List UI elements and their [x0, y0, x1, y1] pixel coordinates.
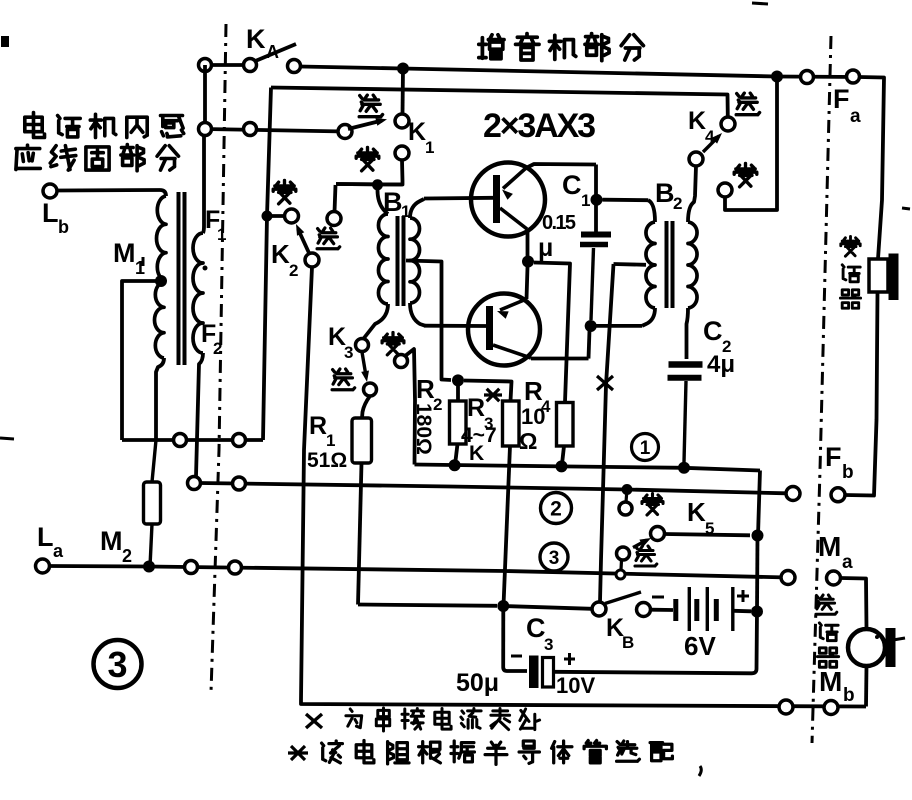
battery 6V cells	[673, 599, 678, 621]
capacitor C1	[581, 232, 611, 238]
transistor Q1	[471, 163, 545, 237]
switch K4 shou contact	[734, 164, 757, 187]
node junction K2 shou	[262, 211, 273, 222]
transmitter element	[848, 629, 885, 666]
mark C3 minus	[511, 655, 522, 658]
mark battery minus	[652, 596, 664, 599]
switch K2	[267, 214, 285, 218]
transistor Q1 emitter	[503, 168, 526, 189]
transistor Q2	[468, 294, 540, 366]
wire Q2 base	[424, 324, 486, 328]
svg-text:M: M	[818, 531, 841, 562]
transformer F core bars	[177, 192, 181, 365]
node junction B1 top	[372, 179, 383, 190]
svg-text:Ω: Ω	[519, 428, 537, 454]
wire C1 node to B2	[603, 198, 649, 202]
wire mu node to R4	[534, 263, 570, 403]
svg-text:R: R	[309, 412, 327, 440]
svg-text:K: K	[469, 442, 484, 465]
label song K2 and contact	[335, 185, 336, 212]
svg-text:51Ω: 51Ω	[307, 449, 347, 472]
switch K_B	[592, 602, 606, 616]
svg-text:1: 1	[425, 138, 434, 157]
svg-text:1: 1	[401, 202, 410, 221]
wire KB row	[358, 605, 497, 606]
svg-text:10: 10	[521, 404, 545, 429]
label shouhuaqi receiver text	[841, 237, 860, 257]
receiver element	[869, 259, 888, 292]
transformer B2 right winding	[688, 222, 697, 308]
svg-text:2: 2	[673, 194, 682, 213]
resistor R3	[503, 401, 520, 446]
transistor Q1 base bar	[493, 175, 500, 223]
wire M1 tap to left loop	[122, 281, 161, 440]
capacitor C3 plates	[529, 656, 539, 689]
note line 1 x mark	[306, 714, 322, 728]
wire B2 left bottom to collector node	[596, 324, 642, 328]
svg-text:K: K	[688, 107, 706, 135]
svg-text:M: M	[819, 666, 842, 697]
svg-text:L: L	[42, 198, 59, 228]
mark reference star R3	[487, 389, 500, 402]
switch K5	[651, 527, 665, 541]
svg-text:180Ω: 180Ω	[412, 403, 435, 455]
note line 2 text	[322, 741, 343, 763]
figure number 3 big	[94, 640, 142, 688]
svg-text:K: K	[408, 118, 426, 146]
transformer B1 core bars	[396, 216, 400, 306]
wire K5 to common node	[665, 534, 751, 535]
wire: K2 rail from second line	[263, 88, 271, 441]
capacitor C2	[669, 361, 703, 368]
mark M1 polarity tick	[142, 257, 145, 266]
wire: K2 pivot rail down to Mb row	[301, 267, 312, 700]
node junction battery plus	[751, 606, 763, 618]
transformer B1 left winding	[378, 190, 389, 214]
title zengyinji bufen	[479, 35, 504, 59]
svg-text:2: 2	[289, 261, 298, 280]
mark C3 plus	[564, 658, 575, 661]
svg-text:a: a	[53, 541, 64, 561]
svg-text:3: 3	[544, 635, 553, 654]
coil M1 lower	[155, 282, 165, 358]
terminal F_b circles	[786, 487, 800, 501]
wire R1 to KB row	[358, 463, 362, 605]
circled wire number 1	[632, 434, 659, 461]
label yingxianquan bufen text line2	[16, 145, 40, 169]
mark ammeter x	[597, 376, 613, 390]
label songhuaqi transmitter text	[816, 595, 837, 614]
svg-text:μ: μ	[538, 234, 553, 262]
transformer B1 right winding	[410, 218, 420, 303]
svg-text:a: a	[850, 106, 861, 127]
wire bias node corner to R2 R3	[442, 378, 452, 380]
switch K1	[338, 125, 352, 139]
svg-text:6V: 6V	[684, 631, 716, 661]
svg-text:K: K	[271, 239, 290, 269]
svg-text:C: C	[526, 613, 546, 643]
scan noise marks	[1, 36, 9, 47]
svg-text:50μ: 50μ	[456, 669, 499, 697]
transformer B2 core bars	[665, 221, 669, 308]
label song K1	[359, 95, 382, 117]
svg-text:2: 2	[550, 498, 562, 521]
node junction K5 shou	[622, 484, 633, 495]
node junction R4 bottom	[556, 460, 568, 472]
svg-text:M: M	[113, 238, 136, 268]
svg-text:B: B	[383, 187, 403, 217]
mark battery plus	[737, 595, 749, 598]
note line 2 reference mark	[291, 746, 305, 760]
wire Fb corner up to receiver	[845, 292, 878, 496]
node junction top right	[771, 71, 783, 83]
label shou K1	[356, 148, 379, 171]
wire row A corner down to battery plus rail	[758, 471, 760, 536]
svg-text:b: b	[843, 685, 855, 706]
svg-text:C: C	[562, 170, 582, 200]
circled wire number 3	[540, 543, 568, 571]
transistor Q2 emitter	[527, 267, 528, 299]
svg-text:3: 3	[549, 548, 560, 569]
svg-text:A: A	[266, 42, 279, 62]
node junction C2 bottom	[678, 462, 690, 474]
svg-text:1: 1	[581, 191, 590, 210]
wire B1 top node	[336, 182, 403, 186]
wire: right rail down to receiver	[859, 77, 884, 259]
capacitor C3 wires	[501, 606, 505, 667]
switch K1 row wire	[205, 129, 345, 132]
wire: second top line to K4	[271, 88, 728, 118]
svg-text:K: K	[687, 497, 706, 527]
coil F winding	[202, 136, 206, 227]
transistor Q2 collector	[493, 345, 531, 358]
svg-text:3: 3	[107, 644, 127, 685]
terminal L_b	[43, 184, 57, 198]
label shou K2	[273, 181, 296, 204]
svg-text:3: 3	[344, 343, 353, 362]
node junction at K_A output	[397, 63, 409, 75]
wire: left rail between rows	[203, 65, 207, 129]
node junction C1 top	[591, 194, 603, 206]
coil M1 upper	[160, 190, 166, 196]
svg-text:B: B	[655, 178, 675, 208]
svg-text:F: F	[833, 84, 850, 114]
switch K3 shou contact	[382, 333, 404, 355]
wire B2 center tap	[614, 262, 647, 267]
wire Ma row corner to transmitter	[841, 578, 867, 629]
svg-text:10V: 10V	[556, 673, 595, 698]
switch K5 shou contact	[626, 490, 627, 503]
label song K4	[736, 93, 759, 115]
switch K_A	[205, 63, 250, 67]
svg-text:b: b	[58, 217, 69, 237]
switch K1 shou contact and wire to B1	[395, 146, 409, 160]
label dianhuaji neigan text line1	[25, 113, 45, 138]
terminal F_a circles	[801, 71, 814, 84]
wire battery to plus node	[734, 609, 751, 613]
svg-text:1: 1	[640, 438, 651, 459]
resistor element M2 branch	[152, 440, 156, 482]
wire supply line with ammeter mark to KB	[600, 264, 614, 602]
svg-text:B: B	[622, 633, 634, 652]
terminal M_b circles	[779, 700, 793, 714]
node junction C1 bottom	[585, 320, 597, 332]
partition dash-dot line left	[211, 24, 226, 692]
wire KB to battery	[651, 608, 674, 612]
svg-text:1: 1	[326, 431, 335, 450]
node junction R2 bottom	[449, 459, 461, 471]
note comma	[699, 766, 701, 776]
terminal L_a and Ma row wire	[36, 559, 50, 573]
svg-text:L: L	[37, 522, 54, 552]
wire row1 crossing	[122, 438, 263, 442]
node junction KB row	[497, 600, 509, 612]
svg-text:F: F	[825, 442, 842, 472]
node junction R2 R3 top	[452, 374, 464, 386]
wire battery plus down to C3	[554, 612, 758, 674]
terminal M_a circles	[781, 571, 795, 585]
transformer B2 left winding	[648, 200, 655, 222]
transistor Q2 base bar	[486, 306, 493, 350]
note line 1 text	[346, 709, 362, 728]
svg-text:M: M	[100, 526, 123, 556]
svg-text:R: R	[467, 394, 485, 422]
circled wire number 2	[541, 493, 572, 524]
node junction M1 tap	[155, 275, 167, 287]
resistor R1	[352, 418, 372, 463]
wire: bottom Mb row	[301, 700, 866, 707]
wire Q1 base	[424, 196, 493, 200]
wire: top line from K_A to F_a	[300, 67, 859, 78]
svg-text:2: 2	[122, 546, 132, 566]
svg-text:b: b	[842, 462, 854, 483]
resistor R4	[563, 400, 567, 404]
mark core dot	[203, 266, 208, 271]
wire to R3 top	[464, 381, 512, 402]
svg-text:2×3AX3: 2×3AX3	[483, 107, 596, 145]
node junction mu	[522, 256, 534, 268]
wire battery plus rail	[755, 536, 759, 612]
node junction K5 common	[752, 530, 764, 542]
wire row B Fb row	[200, 483, 786, 493]
svg-text:a: a	[842, 552, 853, 573]
partition dash-dot line right	[812, 36, 831, 743]
svg-text:4μ: 4μ	[707, 351, 735, 378]
transistor Q1 collector	[500, 208, 527, 229]
svg-text:C: C	[703, 316, 723, 346]
resistor R2	[456, 386, 460, 401]
wire L_b to M1	[57, 188, 160, 192]
svg-text:0.15: 0.15	[542, 212, 576, 234]
wire row A	[415, 465, 761, 471]
wire B1 center tap to bias node	[406, 261, 442, 379]
wire to C1 top node	[594, 165, 598, 233]
svg-text:K: K	[246, 24, 266, 54]
